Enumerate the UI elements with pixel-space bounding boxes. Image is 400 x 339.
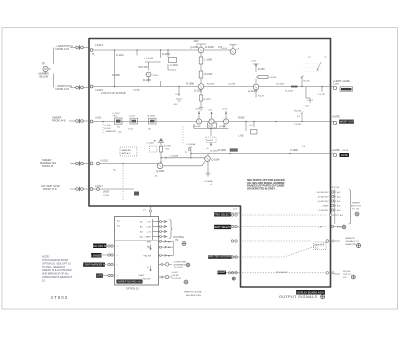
svg-text:- 10 MV/DIV: - 10 MV/DIV xyxy=(317,201,329,203)
svg-text:+GATE: +GATE xyxy=(332,149,340,152)
svg-text:OUT TO: OUT TO xyxy=(343,274,351,276)
svg-text:J-1018: J-1018 xyxy=(342,150,349,152)
svg-text:— — — — — — —: — — — — — — — xyxy=(303,63,323,65)
svg-text:C-1042: C-1042 xyxy=(170,64,179,67)
svg-text:LIGHT: LIGHT xyxy=(138,275,145,277)
svg-text:VERT SELECT: VERT SELECT xyxy=(214,225,232,229)
svg-text:ROUTING: ROUTING xyxy=(174,237,185,239)
svg-text:Q-14163: Q-14163 xyxy=(248,90,258,93)
svg-text:J: J xyxy=(117,265,118,267)
svg-text:+50V: +50V xyxy=(193,40,199,43)
svg-text:C-1063A: C-1063A xyxy=(187,143,196,146)
svg-text:C-107: C-107 xyxy=(307,100,314,102)
svg-text:C-1090: C-1090 xyxy=(290,149,299,152)
svg-text:GATE: GATE xyxy=(341,153,348,157)
svg-text:R-1062: R-1062 xyxy=(164,146,172,148)
svg-text:C-1500: C-1500 xyxy=(269,77,277,79)
svg-text:+15V: +15V xyxy=(251,61,257,63)
svg-text:HGT 236: HGT 236 xyxy=(138,66,148,69)
svg-text:LIGHT: LIGHT xyxy=(218,270,226,274)
svg-text:COMPUTER: COMPUTER xyxy=(174,262,187,264)
svg-text:SER: SER xyxy=(147,241,152,243)
svg-text:PICK-OFF SIG: PICK-OFF SIG xyxy=(91,244,108,248)
svg-text:C-1041: C-1041 xyxy=(113,113,121,115)
svg-text:J-1014: J-1014 xyxy=(95,43,103,47)
svg-text:REV APR 1985: REV APR 1985 xyxy=(186,294,202,297)
svg-text:REMOTE: REMOTE xyxy=(346,238,356,240)
svg-text:TO J1012: TO J1012 xyxy=(172,278,182,280)
svg-text:J-1017: J-1017 xyxy=(95,184,103,188)
svg-text:R-1080: R-1080 xyxy=(112,74,121,77)
svg-text:OR DEPICTED IN GREY.: OR DEPICTED IN GREY. xyxy=(247,187,276,190)
svg-text:PULSE: PULSE xyxy=(143,279,151,281)
svg-text:OUTPUT SIGNALS: OUTPUT SIGNALS xyxy=(279,295,317,299)
svg-text:J: J xyxy=(117,255,118,257)
svg-text:C-150: C-150 xyxy=(129,116,136,118)
svg-text:R-063: R-063 xyxy=(238,117,245,120)
svg-text:R-04: R-04 xyxy=(209,126,215,128)
svg-text:C-105: C-105 xyxy=(221,48,228,50)
svg-text:R-1046: R-1046 xyxy=(286,90,294,92)
svg-text:B SWEEP: B SWEEP xyxy=(90,253,102,257)
svg-text:- 5 MV/DIV: - 5 MV/DIV xyxy=(318,210,329,212)
svg-text:PAL SW: PAL SW xyxy=(144,254,151,257)
svg-text:R-1040: R-1040 xyxy=(162,53,171,56)
svg-text:R-100: R-100 xyxy=(105,128,112,130)
svg-text:J: J xyxy=(117,276,118,278)
svg-text:Q-0401: Q-0401 xyxy=(219,126,227,128)
svg-text:J-1016: J-1016 xyxy=(100,159,108,163)
svg-text:+ C-1040: + C-1040 xyxy=(144,58,154,60)
svg-text:OUT: OUT xyxy=(283,272,288,274)
svg-text:C-1091: C-1091 xyxy=(294,124,302,126)
svg-text:+ MARKER: + MARKER xyxy=(105,130,117,133)
svg-text:C-1747: C-1747 xyxy=(318,94,326,96)
svg-text:10.: 10. xyxy=(42,280,46,283)
svg-text:R-1068: R-1068 xyxy=(218,149,227,152)
svg-text:C-1064A: C-1064A xyxy=(204,180,213,183)
svg-text:Q-1064: Q-1064 xyxy=(212,158,221,161)
svg-text:+ X1: + X1 xyxy=(146,232,151,234)
svg-text:R-1048: R-1048 xyxy=(205,45,214,49)
svg-text:LIGHT: LIGHT xyxy=(172,272,179,274)
svg-text:TR-2: TR-2 xyxy=(113,116,119,118)
svg-text:L-1089: L-1089 xyxy=(205,59,213,62)
svg-text:SIGNALS TO: SIGNALS TO xyxy=(346,240,359,243)
svg-text:R-062: R-062 xyxy=(207,140,214,142)
svg-text:+GATE: +GATE xyxy=(332,116,340,119)
svg-text:+ GATE: + GATE xyxy=(143,236,151,239)
svg-text:J-005A: J-005A xyxy=(133,89,140,92)
svg-text:+ XY: + XY xyxy=(146,222,151,224)
svg-text:TO J75: TO J75 xyxy=(352,209,360,211)
svg-text:R-1048: R-1048 xyxy=(148,116,156,118)
svg-text:+ GATE: + GATE xyxy=(321,205,329,208)
svg-text:PULSE: PULSE xyxy=(343,271,351,273)
svg-text:A TRACT OF SCHAAB: A TRACT OF SCHAAB xyxy=(101,92,126,95)
svg-text:LR-1047: LR-1047 xyxy=(276,84,285,86)
svg-text:C-1110: C-1110 xyxy=(116,54,124,57)
svg-text:SWEEP BOARD A10: SWEEP BOARD A10 xyxy=(117,279,142,283)
svg-text:OPTION 10: OPTION 10 xyxy=(126,288,139,291)
svg-text:TP: TP xyxy=(42,62,46,66)
svg-text:TRIG SELECT: TRIG SELECT xyxy=(214,212,231,216)
svg-text:R-103: R-103 xyxy=(304,80,311,82)
svg-text:R-1053: R-1053 xyxy=(205,73,214,76)
svg-text:REAR PNL: REAR PNL xyxy=(346,243,358,246)
svg-text:TO J-101: TO J-101 xyxy=(174,267,184,269)
svg-text:C-1063: C-1063 xyxy=(147,142,155,144)
svg-text:+LIGHT: +LIGHT xyxy=(333,80,342,83)
svg-text:Q-0708: Q-0708 xyxy=(193,126,201,128)
svg-text:R-1093: R-1093 xyxy=(207,84,215,86)
svg-text:R-153: R-153 xyxy=(258,68,265,71)
svg-text:- 100 MV/DIV: - 100 MV/DIV xyxy=(315,192,329,194)
svg-text:Q-1088: Q-1088 xyxy=(191,46,200,49)
svg-text:FROM J6: FROM J6 xyxy=(42,164,54,168)
svg-text:J: J xyxy=(117,246,118,248)
svg-text:INTERFACE: INTERFACE xyxy=(174,263,187,266)
svg-text:FROM J4-8: FROM J4-8 xyxy=(56,47,70,51)
svg-text:R-1090: R-1090 xyxy=(294,111,302,113)
svg-text:— — — — — — —: — — — — — — — xyxy=(303,67,323,69)
svg-text:4T903: 4T903 xyxy=(51,295,69,300)
svg-text:R-1055: R-1055 xyxy=(143,79,152,82)
svg-text:L-80: L-80 xyxy=(239,135,244,138)
svg-text:R-147: R-147 xyxy=(258,96,265,98)
svg-text:J6067: J6067 xyxy=(103,191,110,194)
svg-text:PULSE: PULSE xyxy=(172,275,180,277)
svg-text:-15V: -15V xyxy=(173,104,178,106)
svg-text:— — — — — —: — — — — — — xyxy=(303,71,320,73)
svg-text:FROM J4-8: FROM J4-8 xyxy=(56,87,70,91)
svg-text:- 50 MV/DIV: - 50 MV/DIV xyxy=(317,197,329,199)
svg-text:J-1011: J-1011 xyxy=(333,84,340,86)
svg-text:DISPLAY BOARD ASSY: DISPLAY BOARD ASSY xyxy=(296,290,324,294)
svg-text:ALT SWP MARKER AMP: ALT SWP MARKER AMP xyxy=(79,263,108,267)
svg-text:+5V: +5V xyxy=(208,110,212,112)
svg-text:C-1094: C-1094 xyxy=(228,84,236,86)
svg-text:OPTION: OPTION xyxy=(331,187,340,189)
svg-text:AMP A-5: AMP A-5 xyxy=(122,152,131,155)
svg-text:Q-1096: Q-1096 xyxy=(194,89,203,92)
svg-text:GATE: GATE xyxy=(96,274,103,278)
svg-text:C-106: C-106 xyxy=(103,195,110,197)
svg-text:SWEEP GATE: SWEEP GATE xyxy=(338,119,355,123)
svg-text:J1013: J1013 xyxy=(337,227,344,229)
svg-text:PRINTED IN USA: PRINTED IN USA xyxy=(184,291,202,294)
svg-text:C-48: C-48 xyxy=(175,94,181,96)
svg-text:R-1088: R-1088 xyxy=(186,82,195,85)
svg-text:SWEEP: SWEEP xyxy=(352,203,360,205)
svg-text:J-101: J-101 xyxy=(95,116,102,120)
svg-text:REM XYZ: REM XYZ xyxy=(315,245,325,247)
svg-text:FROM J4-8: FROM J4-8 xyxy=(52,119,66,123)
svg-text:BELOW: BELOW xyxy=(40,75,49,78)
svg-text:FROM J7-8: FROM J7-8 xyxy=(43,187,57,191)
svg-text:C02-1: C02-1 xyxy=(153,75,160,77)
svg-text:+ X10: + X10 xyxy=(145,227,152,229)
svg-text:Q-1058: Q-1058 xyxy=(156,170,165,173)
svg-text:C-1042A: C-1042A xyxy=(170,154,179,157)
svg-text:+15V: +15V xyxy=(222,109,228,111)
svg-text:R-1097: R-1097 xyxy=(204,99,212,101)
svg-text:MARKER: MARKER xyxy=(122,149,132,152)
svg-text:- 4V: - 4V xyxy=(318,227,323,229)
svg-text:C-1-B: C-1-B xyxy=(105,125,111,127)
svg-text:COMPUTER INTERFACE: COMPUTER INTERFACE xyxy=(205,255,235,259)
svg-text:UPPER PARTS READOUT: UPPER PARTS READOUT xyxy=(42,276,73,279)
svg-text:+GATE: +GATE xyxy=(342,80,350,83)
svg-text:SIG OUT: SIG OUT xyxy=(352,206,362,208)
